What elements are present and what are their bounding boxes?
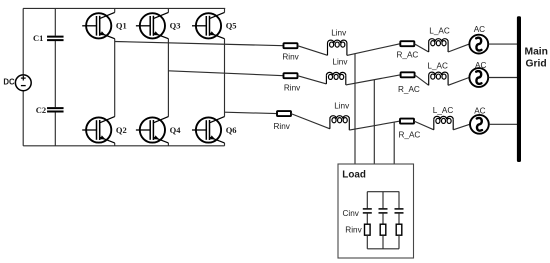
capacitor C2 [47, 107, 64, 109]
transistor Q4 [140, 117, 165, 142]
label Rinv (row 1) [282, 52, 299, 61]
wire: load branch 1 upper [366, 192, 368, 209]
DC source plus mark [21, 77, 26, 79]
wire: leg 3 phase column [224, 39, 226, 117]
transistor Q3 [140, 13, 165, 38]
wire: leg 3 emitter bottom [224, 143, 226, 146]
DC source minus mark [21, 85, 26, 87]
wire: L_AC to AC (row 3) [453, 124, 470, 130]
transistor Q1 [86, 13, 111, 38]
wire: load branch 3 mid [398, 214, 400, 225]
label Linv (row 1) [331, 28, 347, 37]
wire: load branch 2 lower [382, 235, 384, 249]
resistor Rinv load (branch 2) [380, 224, 386, 235]
capacitor Cinv (branch 3) [395, 208, 404, 210]
wire: load top rail [367, 191, 399, 193]
svg-text:Rinv: Rinv [345, 225, 362, 234]
label L_AC (row 2) [427, 61, 448, 70]
svg-text:Main: Main [525, 47, 548, 58]
bottom DC bus [23, 145, 224, 147]
capacitor Cinv (branch 2) [379, 208, 388, 210]
svg-text:Linv: Linv [331, 28, 347, 37]
wire: load branch 3 lower [398, 235, 400, 249]
Load box [338, 164, 414, 258]
label L_AC (row 3) [433, 106, 454, 115]
transistor Q5 [196, 13, 221, 38]
resistor Rinv load (branch 3) [396, 224, 402, 235]
capacitor C1 [47, 36, 64, 38]
label Rinv (row 2) [284, 84, 301, 93]
label Linv (row 2) [332, 58, 348, 67]
inductor Linv (row 3) [329, 119, 331, 129]
svg-text:Grid: Grid [526, 58, 547, 69]
wire: DC- lead [22, 91, 24, 146]
AC source (row 1) [469, 35, 488, 54]
label Rinv (row 3) [274, 122, 291, 131]
transistor Q6 [196, 117, 221, 142]
svg-text:Load: Load [342, 170, 366, 181]
wire: leg 2 emitter bottom [167, 143, 169, 146]
svg-text:R_AC: R_AC [399, 130, 421, 139]
label AC (row 2) [475, 61, 486, 70]
resistor R_AC (row 2) [401, 72, 415, 77]
wire: AC to grid bus (row 3) [489, 123, 517, 125]
label Q1 [116, 21, 127, 31]
svg-text:Q6: Q6 [226, 125, 237, 135]
resistor R_AC (row 3) [400, 119, 414, 124]
resistor Rinv (row 3) [277, 111, 291, 116]
inductor L_AC (row 2) [428, 75, 430, 85]
inductor Linv (row 2) [325, 75, 327, 84]
svg-text:Q2: Q2 [116, 125, 127, 135]
wire: Rinv to Linv (row 1) [298, 46, 328, 56]
Main Grid bus bar [517, 16, 521, 162]
wire: R_AC to L_AC (row 2) [415, 75, 429, 86]
svg-text:Q4: Q4 [170, 125, 182, 135]
capacitor Cinv (branch 1) [363, 208, 372, 210]
svg-text:C1: C1 [33, 33, 43, 43]
wire: Linv to R_AC (row 1) [347, 44, 400, 56]
label Main Grid [525, 47, 548, 58]
wire: leg 1 emitter bottom [114, 143, 116, 146]
label Q2 [116, 125, 127, 135]
wire: Rinv to Linv (row 2) [298, 76, 327, 84]
label Q6 [226, 125, 237, 135]
label Rinv load [345, 225, 362, 234]
wire: capacitor branch [54, 8, 56, 35]
wire: L_AC to AC (row 2) [448, 78, 469, 86]
wire: leg 2 phase column [167, 39, 169, 117]
label Q4 [170, 125, 182, 135]
wire: R_AC to L_AC (row 1) [414, 44, 428, 52]
label R_AC (row 2) [398, 85, 420, 94]
label L_AC (row 1) [429, 26, 450, 35]
svg-text:Q5: Q5 [226, 21, 237, 31]
wire: Linv to R_AC (row 3) [349, 121, 400, 130]
svg-text:AC: AC [474, 106, 485, 115]
svg-text:Q1: Q1 [116, 21, 127, 31]
label AC (row 1) [474, 25, 485, 34]
resistor Rinv load (branch 1) [365, 224, 371, 235]
DC source [15, 75, 31, 91]
label C2 [36, 105, 46, 115]
svg-text:C2: C2 [36, 105, 46, 115]
transistor Q2 [86, 117, 111, 142]
wire: load branch 3 upper [398, 192, 400, 209]
svg-text:R_AC: R_AC [398, 85, 420, 94]
wire: load branch 2 upper [382, 192, 384, 209]
wire: load feed 3 [393, 122, 395, 164]
svg-text:Cinv: Cinv [343, 209, 360, 218]
label DC [3, 77, 15, 86]
svg-text:AC: AC [474, 25, 485, 34]
label R_AC (row 1) [397, 51, 419, 60]
svg-text:DC: DC [3, 77, 15, 86]
AC source (row 2) [469, 68, 488, 87]
svg-text:R_AC: R_AC [397, 51, 419, 60]
wire: phase A [115, 42, 284, 46]
svg-text:Rinv: Rinv [282, 52, 299, 61]
wire: load branch 2 mid [382, 214, 384, 225]
wire: load feed 2 [373, 80, 375, 164]
wire: leg 3 collector top [224, 8, 226, 12]
svg-text:Rinv: Rinv [274, 122, 291, 131]
wire: R_AC to L_AC (row 3) [414, 121, 434, 130]
AC source (row 3) [470, 115, 489, 134]
wire: Linv to R_AC (row 2) [346, 75, 401, 85]
svg-text:Linv: Linv [334, 101, 350, 110]
label AC (row 3) [474, 106, 485, 115]
wire: AC to grid bus (row 2) [489, 77, 518, 79]
label Cinv [343, 209, 360, 218]
svg-text:L_AC: L_AC [429, 26, 450, 35]
svg-text:Linv: Linv [332, 58, 348, 67]
wire: leg 1 phase column [114, 39, 116, 117]
svg-text:Rinv: Rinv [284, 84, 301, 93]
wire: load branch 1 mid [366, 214, 368, 225]
svg-text:L_AC: L_AC [427, 61, 448, 70]
wire: Rinv to Linv (row 3) [291, 114, 330, 129]
wire: load branch 1 lower [366, 235, 368, 249]
svg-text:Q3: Q3 [170, 21, 181, 31]
wire: leg 2 collector top [167, 8, 169, 12]
wire: phase B [168, 71, 283, 76]
resistor Rinv (row 1) [284, 43, 298, 48]
svg-text:AC: AC [475, 61, 486, 70]
wire: L_AC to AC (row 1) [448, 44, 469, 52]
inductor L_AC (row 3) [433, 119, 435, 130]
resistor Rinv (row 2) [284, 73, 298, 78]
label C1 [33, 33, 43, 43]
label Linv (row 3) [334, 101, 350, 110]
label R_AC (row 3) [399, 130, 421, 139]
wire: leg 1 collector top [114, 8, 116, 12]
wire: phase C [225, 112, 278, 113]
wire: load feed 1 [354, 54, 356, 164]
inductor Linv (row 1) [327, 43, 329, 55]
wire: load bottom rail [367, 248, 399, 250]
label Q5 [226, 21, 237, 31]
label Q3 [170, 21, 181, 31]
wire: DC+ lead [22, 8, 24, 75]
wire: AC to grid bus (row 1) [489, 43, 518, 45]
label Load [342, 170, 366, 181]
top DC bus [23, 7, 225, 9]
svg-text:L_AC: L_AC [433, 106, 454, 115]
inductor L_AC (row 1) [428, 42, 430, 52]
resistor R_AC (row 1) [400, 41, 414, 46]
